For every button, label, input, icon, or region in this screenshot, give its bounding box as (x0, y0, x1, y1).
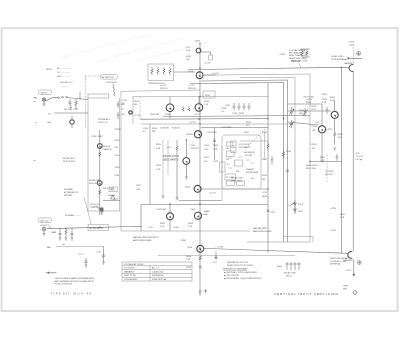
label R584 56K (299, 110, 305, 115)
small rect right mid (231, 148, 237, 153)
svg-text:SINK: SINK (203, 214, 208, 216)
arrow +12.2V bias (204, 73, 219, 75)
wire feed to Q594 (288, 122, 319, 125)
transistor V558 (97, 144, 102, 149)
ground under input jack (43, 101, 46, 105)
svg-text:TYPE 547 M/LG–49: TYPE 547 M/LG–49 (51, 291, 92, 295)
vertical x214.5 (214, 128, 216, 161)
label PARTIAL right box (253, 227, 272, 233)
svg-text:CKT ◉: CKT ◉ (356, 158, 363, 161)
ground under BAL drop (102, 262, 105, 264)
cap x337 (336, 154, 339, 161)
svg-text:VOLTAGE AT DIODE: VOLTAGE AT DIODE (124, 263, 144, 266)
label C538 (221, 108, 227, 113)
delay network capacitor row (233, 103, 251, 110)
title diamond (353, 290, 357, 294)
wire BAL drop (103, 246, 105, 262)
svg-text:+12.2V: +12.2V (209, 193, 216, 195)
transistor Q594 right (318, 126, 325, 133)
svg-text:+12V: +12V (96, 252, 102, 254)
ground mid (85, 265, 88, 267)
svg-text:R543: R543 (262, 196, 268, 198)
switch contact b (62, 96, 64, 98)
label under Q564B (188, 223, 194, 228)
transistor Q534A (166, 104, 174, 112)
label LRW MHI (343, 286, 348, 291)
label R604 rows (306, 165, 318, 170)
svg-text:GANGED: GANGED (344, 259, 354, 262)
voltage conditions table (122, 262, 192, 281)
svg-text:680 • • 680: 680 • • 680 (306, 168, 316, 170)
dashed x327 (326, 155, 328, 182)
ground below Q604 (333, 148, 336, 150)
svg-text:PICKOFF: PICKOFF (89, 183, 99, 185)
svg-text:C545: C545 (225, 105, 231, 107)
svg-text:R558 1K: R558 1K (103, 146, 112, 148)
dashed stub above top coax (352, 47, 354, 63)
label C534 rows (143, 128, 158, 133)
svg-text:AMPLIFIER BOARD: AMPLIFIER BOARD (253, 230, 272, 233)
svg-text:C534: C534 (143, 128, 149, 130)
switch lever arc (46, 97, 58, 101)
attenuator label rounded box (101, 75, 118, 80)
svg-text:ALL • .5: ALL • .5 (152, 267, 160, 270)
register plus mark (204, 289, 208, 293)
svg-text:R610: R610 (340, 214, 346, 216)
svg-text:SW: SW (236, 171, 239, 173)
wire right bus x343.5 (340, 67, 342, 253)
amplifier inner line y118 (163, 116, 310, 117)
cap drop C (59, 228, 62, 238)
svg-text:R552: R552 (156, 165, 162, 167)
wire vertical bus x287 (201, 80, 288, 242)
svg-text:R541: R541 (262, 159, 268, 161)
svg-text:+225V: +225V (321, 94, 328, 96)
svg-text:NORMAL — — —: NORMAL — — — (65, 214, 82, 217)
wire center vertical bus (199, 43, 201, 296)
svg-text:3.9K: 3.9K (330, 100, 335, 102)
svg-text:LRW: LRW (343, 286, 348, 288)
svg-text:33K: 33K (152, 131, 156, 133)
board box outer left edge (121, 90, 250, 231)
svg-text:INPUT: INPUT (46, 69, 53, 71)
transistor Q564B (194, 212, 201, 219)
svg-text:2.2K: 2.2K (160, 226, 165, 228)
svg-text:R602: R602 (320, 157, 326, 159)
wire stub left of board (79, 92, 81, 100)
delay line stub strokes (285, 262, 301, 270)
svg-text:4.7K: 4.7K (340, 217, 345, 219)
resistor below Q584 (199, 256, 201, 260)
svg-text:2.2K: 2.2K (188, 226, 193, 228)
svg-text:−12.2: −12.2 (212, 262, 218, 264)
note arrow bottom left (46, 272, 57, 274)
switch wafer extra rows (226, 147, 255, 180)
transistor V583 (97, 181, 102, 186)
svg-text:+225V: +225V (279, 54, 286, 56)
svg-text:+12.2V: +12.2V (160, 85, 167, 87)
svg-text:R588: R588 (186, 256, 192, 258)
wire y200 lower (179, 200, 222, 202)
label above Q534B (188, 85, 197, 90)
wire q524 output y189 (201, 188, 268, 190)
lead Q534A up (169, 97, 171, 104)
resistor in column (99, 152, 101, 156)
variable cap C592 (289, 120, 294, 128)
svg-text:TRIGGERING: TRIGGERING (124, 279, 138, 281)
cap ticks on x268 lower (267, 210, 270, 211)
svg-text:+12.2V: +12.2V (194, 114, 201, 116)
svg-text:R598: R598 (312, 144, 318, 146)
wire calibrator line (47, 226, 142, 228)
left margin specks (34, 97, 37, 161)
svg-text:R608: R608 (338, 134, 344, 136)
wire q544 collector right (201, 127, 268, 129)
cal jack (42, 227, 46, 231)
cap x327 (326, 107, 329, 114)
resistor drop R (65, 228, 67, 238)
lead Q534A down (169, 112, 171, 118)
wire BAL line (56, 245, 104, 247)
svg-text:→ +7.03V: → +7.03V (214, 247, 224, 249)
svg-text:R522 1K: R522 1K (191, 148, 200, 150)
transistor Q514 (196, 72, 203, 79)
transistor small input follower (70, 120, 74, 124)
wire feed to Q604 (288, 110, 332, 112)
label above Q534A (160, 85, 169, 90)
svg-text:PROBE ADJ: PROBE ADJ (98, 118, 110, 121)
svg-text:6.8K: 6.8K (156, 148, 161, 150)
svg-text:MHI: MHI (343, 288, 347, 290)
note see parts list (227, 261, 253, 267)
transistor Q554 (183, 158, 190, 165)
svg-text:R533: R533 (152, 128, 158, 130)
Q554 lead down + ground (185, 165, 188, 180)
transistor Q564A (167, 213, 174, 220)
svg-text:R586: R586 (181, 240, 187, 242)
svg-text:MIDRANGE: MIDRANGE (152, 274, 164, 277)
svg-text:+225V: +225V (306, 99, 313, 101)
CAL OUT rounded box (38, 218, 52, 223)
svg-text:TRIG SIG: TRIG SIG (90, 207, 99, 209)
ground bottom center bus (199, 291, 202, 293)
svg-text:+225V: +225V (194, 41, 201, 43)
Q564A lead up (169, 204, 171, 213)
svg-text:+225V: +225V (330, 208, 337, 210)
decoupling resistors top right (300, 49, 310, 57)
svg-text:C534 330: C534 330 (160, 128, 170, 130)
svg-text:ATTENUATOR: ATTENUATOR (64, 191, 78, 194)
svg-text:C560: C560 (115, 167, 121, 169)
svg-text:FROM TRIG: FROM TRIG (63, 158, 75, 160)
switch text rows (239, 144, 255, 157)
svg-text:+HEAT: +HEAT (203, 210, 210, 213)
svg-text:VIEWED: VIEWED (246, 169, 255, 171)
Q554 lead up (185, 140, 187, 158)
svg-text:16K: 16K (186, 59, 190, 61)
svg-text:R510: R510 (186, 56, 192, 58)
svg-text:DRIVER ◉: DRIVER ◉ (330, 263, 340, 266)
svg-text:+12V: +12V (113, 199, 119, 201)
svg-text:◉ VERTICAL OUTPUT AMPLIFIER: ◉ VERTICAL OUTPUT AMPLIFIER (224, 271, 257, 274)
ground under cap drop (59, 238, 62, 240)
svg-text:DELAY LINE — —: DELAY LINE — — (331, 55, 349, 58)
board box bottom right step (283, 237, 313, 243)
switch text lower rows (246, 169, 259, 174)
label R602 (320, 157, 326, 162)
dashed attenuator top (86, 75, 102, 77)
svg-text:VERTICAL INPUT AMPLIFIER: VERTICAL INPUT AMPLIFIER (274, 292, 339, 296)
svg-text:R549: R549 (286, 151, 292, 153)
svg-text:C506 2–8: C506 2–8 (98, 122, 108, 124)
svg-text:VERT POSN: VERT POSN (124, 275, 136, 277)
svg-text:NORM TRIG: NORM TRIG (89, 180, 101, 182)
label right labels x322 (322, 99, 328, 104)
label 4.7K right bus (340, 214, 346, 219)
svg-text:TO VERT: TO VERT (325, 171, 334, 173)
svg-text:C584: C584 (186, 267, 192, 269)
wire Q594 collector up (321, 104, 323, 126)
coax connector bottom delay line (348, 252, 353, 259)
svg-text:1kc: 1kc (62, 244, 65, 246)
svg-text:SEE PARTS LIST FOR: SEE PARTS LIST FOR (227, 261, 248, 264)
ground under cap drop 2 (71, 238, 74, 240)
svg-text:R542: R542 (262, 175, 268, 177)
svg-text:S501·AC–DC: S501·AC–DC (60, 81, 73, 84)
bias labels row above board bottom (148, 227, 180, 229)
svg-text:+225V: +225V (349, 45, 356, 47)
svg-text:1M 20pF C502: 1M 20pF C502 (64, 109, 79, 111)
switch inner rect row2 (227, 151, 235, 157)
label right column x213 (213, 145, 219, 163)
emitter follower rect (109, 187, 117, 192)
svg-text:DELAY LINE: DELAY LINE (231, 177, 243, 180)
svg-text:R606: R606 (330, 97, 336, 99)
svg-text:+225V: +225V (326, 129, 333, 131)
dashed normal leader (65, 214, 82, 217)
transistor Q584 output (197, 245, 204, 252)
svg-text:R550: R550 (156, 144, 162, 146)
cap C584 (199, 266, 202, 267)
Q564A lead down (169, 220, 171, 231)
svg-text:VOLTS/DIV: VOLTS/DIV (106, 82, 117, 84)
svg-text:— — —: — — — (62, 86, 70, 88)
circled-plus top right (357, 51, 361, 55)
board box inner top (133, 97, 268, 125)
label under Q564A (160, 223, 166, 228)
svg-text:R532 1K: R532 1K (160, 88, 169, 90)
wire attenuator inner column (99, 130, 101, 215)
svg-text:Q524: Q524 (185, 187, 191, 189)
diode D583 (108, 195, 115, 199)
svg-text:+12V: +12V (148, 227, 154, 229)
svg-text:C547: C547 (270, 212, 276, 214)
svg-text:C538: C538 (221, 108, 227, 110)
reference diagrams block (223, 268, 263, 280)
svg-text:C+R VALUES MAY: C+R VALUES MAY (289, 49, 307, 52)
ground under R501 (75, 107, 77, 108)
attenuator rect on cal line (88, 225, 109, 231)
wire delay-line bus x353 (352, 72, 354, 252)
svg-text:M: M (49, 227, 51, 229)
wire +12V emitter (103, 200, 120, 202)
svg-text:C566: C566 (190, 209, 196, 211)
svg-text:SW WAFER: SW WAFER (239, 146, 251, 149)
svg-text:ELEV: ELEV (277, 266, 283, 268)
note NORMAL attenuator (64, 188, 78, 197)
svg-text:Q584: Q584 (187, 247, 193, 249)
svg-text:CAL OUT: CAL OUT (40, 220, 50, 223)
volts/div rounded switch box (222, 135, 261, 189)
label 1.2V trig rows (90, 204, 100, 209)
vertical signal note (330, 257, 349, 266)
label right of delay bus (356, 153, 364, 161)
cap on BAL drop (102, 255, 105, 256)
resistor R501 1M (75, 99, 77, 106)
resistor x305 variable (303, 108, 309, 116)
svg-text:DC: DC (48, 114, 52, 116)
INPUT rounded box (39, 90, 52, 95)
svg-text:GAIN: GAIN (51, 231, 57, 234)
relay coil box (220, 162, 226, 172)
svg-text:ATTENUATOR: ATTENUATOR (90, 227, 104, 230)
svg-text:C594: C594 (312, 126, 318, 128)
ground x163 (162, 196, 165, 198)
svg-text:3.3K: 3.3K (186, 50, 191, 52)
ground under resistor drop (65, 238, 68, 240)
cap drop 2 (71, 228, 74, 239)
svg-text:56K: 56K (299, 113, 303, 115)
svg-text:R596: R596 (322, 99, 328, 101)
diode pair on x295 (290, 200, 296, 214)
svg-text:D592: D592 (298, 211, 304, 213)
svg-text:+12.2: +12.2 (166, 147, 172, 149)
label right of Q534B rows (204, 101, 210, 106)
svg-text:MAINT SECTION: MAINT SECTION (291, 59, 308, 62)
svg-text:PICKOFF EF: PICKOFF EF (63, 161, 76, 163)
dly line inv rect (225, 174, 236, 180)
wire y104 right cluster (288, 103, 323, 105)
svg-text:R594: R594 (306, 102, 312, 104)
svg-text:DC — — — —: DC — — — — (57, 72, 71, 74)
svg-text:VARIABLE: VARIABLE (124, 270, 135, 273)
inner vertical x168 (167, 140, 169, 175)
svg-text:C545: C545 (190, 145, 196, 147)
svg-text:C544 • TRIM: C544 • TRIM (232, 113, 244, 115)
svg-text:(DC) 1.2V: (DC) 1.2V (90, 204, 100, 206)
svg-text:GANGED: GANGED (344, 62, 354, 65)
svg-text:8.2K: 8.2K (322, 102, 327, 104)
svg-text:1.2K: 1.2K (213, 149, 218, 151)
svg-text:VOLTS/DIV: VOLTS/DIV (124, 268, 135, 270)
wire lower rail y255.5 (158, 255, 295, 257)
svg-text:+12V R546: +12V R546 (221, 127, 232, 129)
svg-text:+12 V: +12 V (78, 254, 84, 256)
svg-text:PARTIAL VERT: PARTIAL VERT (253, 227, 268, 230)
cap C583 blob (100, 208, 103, 212)
svg-text:SEMICONDUCTOR TYPES: SEMICONDUCTOR TYPES (227, 265, 253, 267)
svg-text:C559: C559 (115, 155, 121, 157)
wire DC line (54, 112, 88, 114)
svg-text:R535 SET: R535 SET (150, 114, 160, 116)
svg-text:R530: R530 (134, 101, 140, 103)
svg-text:S540: S540 (244, 132, 250, 134)
label GAIN SET band (dark) (163, 155, 180, 161)
svg-text:C562 R562: C562 R562 (156, 209, 167, 211)
svg-text:D591: D591 (298, 204, 304, 206)
svg-text:R535 1K: R535 1K (172, 128, 181, 130)
leader R590 (299, 63, 302, 68)
wire middle stage top y204 (140, 204, 142, 231)
emitter resistor pair between Q534s (182, 106, 190, 111)
svg-text:BE CHANGED FOR: BE CHANGED FOR (289, 52, 308, 55)
amplifier inner line y124 (140, 118, 268, 121)
label from trig (63, 158, 76, 163)
svg-text:R566: R566 (188, 223, 194, 225)
right column labels x312 (312, 106, 318, 150)
transistor Q504 top small (196, 48, 201, 53)
coil squiggle to switch (113, 84, 116, 96)
switch inner rect bottom2 (237, 181, 245, 186)
svg-text:INPUT: INPUT (41, 93, 48, 95)
switch inner rect row1 (227, 142, 234, 146)
svg-text:R604 • R605: R604 • R605 (306, 165, 318, 167)
svg-text:C526: C526 (204, 145, 210, 147)
note text block top right (289, 49, 308, 62)
svg-text:10K: 10K (312, 148, 316, 150)
svg-text:−150V: −150V (330, 230, 337, 232)
svg-text:R536 1K: R536 1K (188, 88, 197, 90)
svg-text:GND — — —: GND — — — (57, 76, 70, 78)
svg-text:CALIB (CW): CALIB (CW) (152, 270, 164, 273)
svg-text:AC — — — — —: AC — — — — — (57, 67, 73, 70)
svg-text:.5 POSN: .5 POSN (244, 155, 253, 157)
variable cap C590 (289, 107, 294, 116)
svg-text:FREE RUN • AC: FREE RUN • AC (152, 278, 167, 281)
inner vertical x177 with resistor (176, 140, 178, 197)
switch inner rect row3 (235, 160, 243, 166)
svg-text:TRIM CAPS: TRIM CAPS (231, 180, 243, 183)
label C526 column (204, 145, 210, 163)
capacitor C501 (69, 99, 72, 106)
wire vertical bus x283 (190, 83, 284, 243)
cap ticks on x287.5 (286, 170, 289, 171)
svg-text:PARTIAL VERTICAL INPUT: PARTIAL VERTICAL INPUT (133, 236, 159, 239)
dashed attenuator boundary (85, 76, 87, 128)
svg-text:R561: R561 (115, 175, 121, 177)
label column left of Q554 (156, 144, 162, 171)
vertical x264.5 (264, 131, 266, 160)
switch box top link line (240, 140, 268, 142)
svg-text:ATTEN’TOR: ATTEN’TOR (102, 76, 114, 79)
svg-text:3.3K: 3.3K (338, 137, 343, 139)
svg-text:21712: 21712 (346, 270, 353, 272)
svg-text:W/TERM DIAG◉: W/TERM DIAG◉ (331, 58, 347, 61)
ground under cal jack (43, 231, 46, 236)
wire y161 join (310, 161, 342, 163)
svg-text:SHOWN: SHOWN (64, 195, 72, 197)
wire lower signal bus to delay line (204, 248, 349, 253)
svg-text:+12V: +12V (262, 192, 268, 194)
svg-text:R559: R559 (115, 140, 121, 142)
dashed x140 attenuator link (139, 97, 141, 119)
input jack connector (42, 98, 45, 101)
emitter arrows inside transistors (99, 75, 336, 251)
label PARTIAL VERTICAL AMPLIFIER BOARD (133, 236, 159, 242)
label delay line trim rows (231, 177, 243, 183)
coax connector top delay line (349, 65, 354, 72)
ground left column (98, 206, 101, 211)
